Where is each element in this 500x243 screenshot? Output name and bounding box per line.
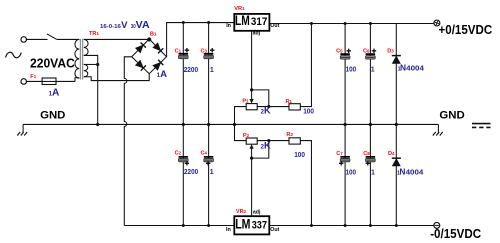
wire C4 vertical: [208, 124, 210, 226]
wire C8 vertical: [369, 124, 371, 226]
svg-text:1A: 1A: [157, 69, 167, 80]
primary coil: [75, 39, 79, 78]
svg-text:2200: 2200: [184, 169, 198, 176]
value 1N4004 (D3): [398, 62, 424, 72]
wire P2 right to R2: [257, 140, 289, 142]
svg-text:4004: 4004: [406, 169, 424, 176]
svg-text:16-0-16: 16-0-16: [100, 24, 122, 30]
node C3 top: [207, 21, 210, 24]
node R2 bottom: [310, 224, 313, 227]
svg-text:337: 337: [252, 219, 267, 231]
svg-text:1: 1: [210, 67, 214, 74]
wire secondary top to bridge top vertex: [84, 38, 149, 40]
node D3/D4 on GND rail: [395, 123, 398, 126]
svg-text:100: 100: [346, 67, 357, 74]
node D4 bottom: [395, 224, 398, 227]
svg-text:100: 100: [303, 109, 314, 116]
AC input terminal bottom: [21, 79, 27, 85]
svg-text:2K: 2K: [261, 141, 271, 151]
potentiometer P1: [246, 90, 257, 110]
AC input terminal top: [21, 37, 27, 43]
output terminal plus: [434, 20, 440, 26]
bridge diode top-right: [153, 43, 163, 53]
svg-text:Out: Out: [270, 227, 279, 233]
wire bottom rail right (LM337 Out to -terminal): [269, 225, 434, 227]
node adj junction P2: [250, 157, 253, 160]
capacitor C3: [204, 48, 215, 59]
wire C6 vertical: [369, 23, 371, 125]
svg-text:1: 1: [371, 67, 375, 74]
bridge B1 diamond: [132, 39, 167, 74]
fuse F1: [42, 78, 75, 85]
wire D3 vertical: [395, 23, 397, 125]
svg-text:D3: D3: [387, 48, 394, 54]
node C1 top: [182, 21, 185, 24]
node P1 right junction: [267, 105, 270, 108]
capacitor C7: [339, 156, 350, 166]
node center tap on GND rail: [96, 123, 99, 126]
svg-text:N: N: [399, 166, 405, 176]
svg-text:1A: 1A: [49, 87, 60, 98]
capacitor C1: [179, 48, 190, 59]
svg-text:317: 317: [251, 16, 267, 28]
svg-text:4004: 4004: [406, 65, 424, 72]
wire R2 to bottom rail: [300, 141, 311, 226]
bridge diode top-left: [136, 42, 146, 52]
tilde AC symbol: [6, 52, 22, 57]
node adj junction P1: [250, 88, 253, 91]
secondary upper winding: [84, 39, 88, 55]
svg-text:-0/15VDC: -0/15VDC: [430, 227, 481, 241]
node P1/P2 on GND rail: [233, 123, 236, 126]
svg-text:In: In: [226, 227, 231, 233]
svg-text:2200: 2200: [184, 67, 198, 74]
transformer TR1: [75, 39, 88, 80]
earth symbol right (solid + dashed): [472, 124, 491, 128]
wire P1 left end to GND rail: [235, 107, 247, 125]
wire top rail left (bridge to LM317 In): [166, 22, 234, 24]
svg-text:VA: VA: [136, 20, 150, 31]
capacitor C4: [204, 156, 214, 166]
node center tap junction: [96, 63, 99, 66]
wire adj to P2 right end (U link): [252, 141, 269, 159]
output terminal minus: [434, 222, 440, 228]
wire LM337 adj up: [251, 158, 253, 216]
node C1/C2 on GND rail: [182, 123, 185, 126]
svg-text:C4: C4: [201, 150, 208, 156]
diode D4: [392, 158, 401, 166]
wire C3 vertical: [208, 22, 210, 125]
node C4 bottom: [207, 224, 210, 227]
wire C5 vertical: [344, 23, 346, 125]
wire D4 vertical: [395, 124, 397, 226]
wire P1 right to R1: [257, 106, 289, 108]
svg-text:C7: C7: [336, 151, 343, 157]
node bridge top vertex: [147, 37, 151, 41]
svg-text:C2: C2: [175, 150, 182, 156]
wire top rail right (LM317 Out to +terminal): [269, 23, 434, 25]
svg-text:LM: LM: [235, 13, 250, 28]
capacitor C2: [179, 156, 190, 166]
wire C2 vertical: [182, 124, 184, 226]
wire bridge minus output down to negative rail: [124, 57, 131, 226]
resistor R1: [289, 104, 300, 110]
svg-text:adj: adj: [253, 210, 261, 216]
potentiometer P2: [246, 138, 257, 158]
node C2 bottom: [182, 224, 185, 227]
svg-text:D4: D4: [388, 151, 395, 157]
svg-text:+0/15VDC: +0/15VDC: [439, 23, 493, 37]
regulator VR2 LM337 box: [234, 216, 269, 234]
svg-text:GND: GND: [439, 109, 464, 121]
capacitor C6: [366, 49, 377, 60]
node C5/C7 on GND rail: [344, 123, 347, 126]
wire fuse to transformer primary bottom: [75, 78, 79, 82]
svg-text:GND: GND: [40, 110, 65, 122]
diode D3: [392, 56, 401, 64]
svg-text:adj: adj: [253, 31, 261, 37]
GND rail: [23, 123, 438, 125]
node C5 top: [344, 22, 347, 25]
wire bottom terminal to fuse: [26, 80, 42, 82]
svg-text:LM: LM: [235, 216, 250, 231]
svg-text:220VAC: 220VAC: [30, 56, 75, 70]
svg-text:100: 100: [294, 152, 305, 159]
node P2 right junction: [267, 139, 270, 142]
value 1N4004 (D4): [397, 166, 423, 176]
switch S1 blade: [47, 34, 57, 40]
wire LM317 adj down: [251, 31, 253, 90]
ground symbol right: [433, 124, 443, 135]
svg-text:F1: F1: [30, 74, 36, 80]
node C6 top: [369, 22, 372, 25]
wire secondary upper bottom lead: [84, 55, 98, 125]
node C7 bottom: [344, 224, 347, 227]
wire R1 to top rail: [300, 23, 311, 107]
capacitor C5: [340, 49, 351, 60]
resistor R2: [289, 138, 300, 144]
wire adj to P1 right end (U link): [252, 90, 269, 107]
node C8 bottom: [369, 224, 372, 227]
wire secondary lower top lead: [84, 63, 98, 65]
wire C7 vertical: [344, 124, 346, 226]
svg-text:TR1: TR1: [89, 31, 99, 37]
capacitor C8: [366, 156, 376, 166]
svg-text:VR1: VR1: [234, 6, 245, 12]
svg-text:N: N: [400, 62, 406, 72]
wire top terminal to switch: [26, 38, 47, 40]
core: [79, 39, 81, 80]
svg-text:In: In: [226, 23, 231, 29]
regulator VR1 LM317 box: [234, 13, 269, 31]
wire switch to transformer primary top: [57, 38, 79, 40]
bridge diode bottom-right: [153, 60, 163, 70]
node C3/C4 on GND rail: [207, 123, 210, 126]
wire C1 vertical: [182, 22, 184, 125]
svg-text:C8: C8: [363, 151, 370, 157]
svg-text:1: 1: [210, 169, 214, 176]
node C6/C8 on GND rail: [369, 123, 372, 126]
ground symbol left: [17, 124, 27, 135]
svg-text:VR2: VR2: [236, 209, 247, 215]
label 16-0-16V 30VA: [100, 20, 150, 31]
bridge diode bottom-left: [136, 60, 146, 70]
wire bridge plus output up to top rail: [166, 22, 168, 57]
wire P2 left end to GND rail: [235, 124, 247, 141]
secondary lower winding: [84, 64, 88, 76]
svg-text:B1: B1: [150, 31, 157, 37]
svg-text:100: 100: [346, 169, 357, 176]
wire secondary bottom lead to bridge bottom vertex: [84, 74, 149, 81]
node R1 top: [310, 22, 313, 25]
svg-text:1: 1: [371, 169, 375, 176]
wire bottom rail left (bridge minus to LM337 In): [124, 225, 234, 227]
svg-text:V: V: [121, 20, 128, 31]
